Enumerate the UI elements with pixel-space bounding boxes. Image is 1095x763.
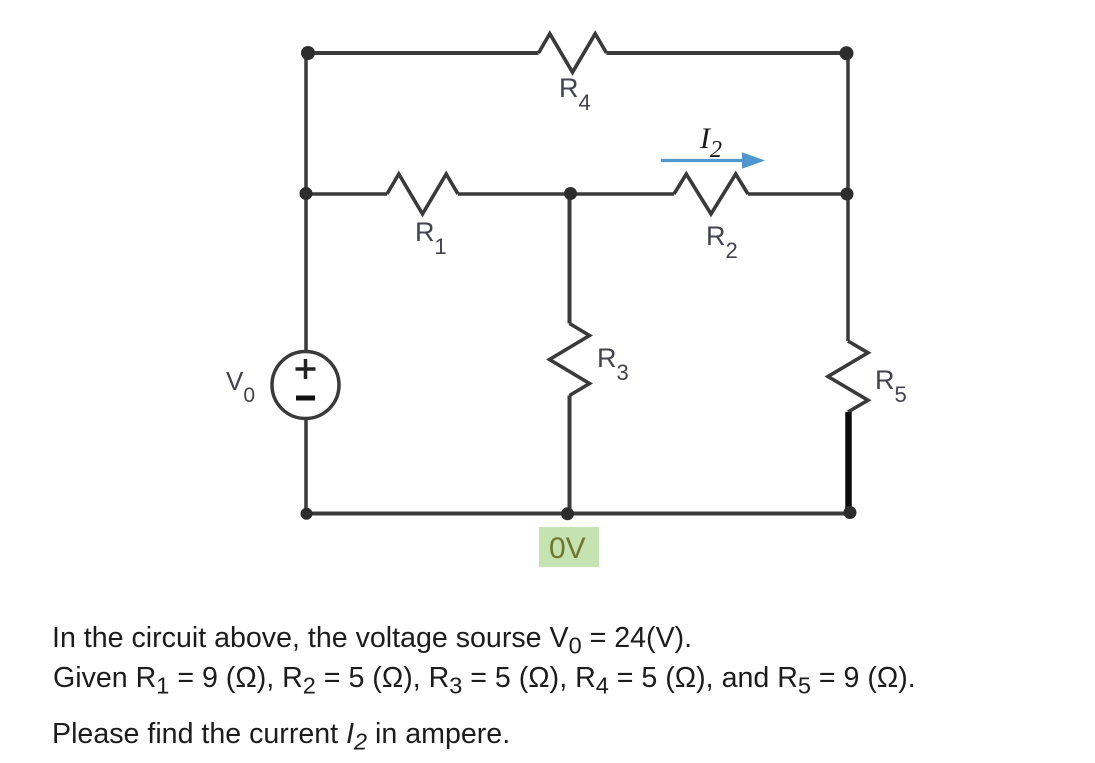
node middle-center — [564, 187, 577, 200]
node bottom-center — [561, 507, 574, 520]
svg-text:R3: R3 — [597, 343, 629, 385]
resistor R2 — [674, 174, 748, 214]
wire top-right segment — [607, 51, 849, 55]
net label 0V — [539, 527, 599, 567]
svg-text:R5: R5 — [875, 365, 907, 407]
node middle-right — [841, 188, 854, 201]
text line 2 — [53, 664, 916, 700]
svg-text:R1: R1 — [415, 217, 447, 259]
resistor R1 — [387, 174, 458, 214]
node bottom-left — [301, 508, 313, 520]
resistor R4 — [539, 34, 607, 73]
svg-text:R4: R4 — [559, 73, 591, 115]
wire center vertical lower — [568, 396, 572, 514]
node middle-left — [300, 187, 313, 200]
node top-right — [840, 46, 854, 60]
voltage source V0 — [272, 352, 339, 419]
text line 3 — [52, 720, 510, 756]
wire middle center segment — [458, 192, 674, 196]
svg-text:I2: I2 — [699, 122, 722, 163]
node top-left — [301, 46, 315, 60]
node bottom-right — [844, 506, 857, 519]
svg-text:V0: V0 — [226, 366, 255, 407]
wire right rail upper — [846, 53, 850, 341]
wire bottom — [306, 512, 850, 516]
text line 1 — [52, 624, 692, 660]
wire left rail upper — [304, 53, 308, 352]
svg-text:0V: 0V — [549, 532, 586, 565]
resistor R5 — [828, 341, 868, 412]
resistor R3 — [550, 324, 590, 396]
wire middle left segment — [306, 192, 387, 196]
wire center vertical upper — [568, 194, 572, 324]
svg-text:R2: R2 — [706, 221, 738, 263]
wire right rail lower thick — [845, 412, 852, 512]
wire middle right segment — [748, 192, 848, 196]
wire top-left segment — [306, 51, 539, 55]
current arrow I2 — [661, 152, 765, 168]
wire left rail lower — [304, 419, 308, 514]
